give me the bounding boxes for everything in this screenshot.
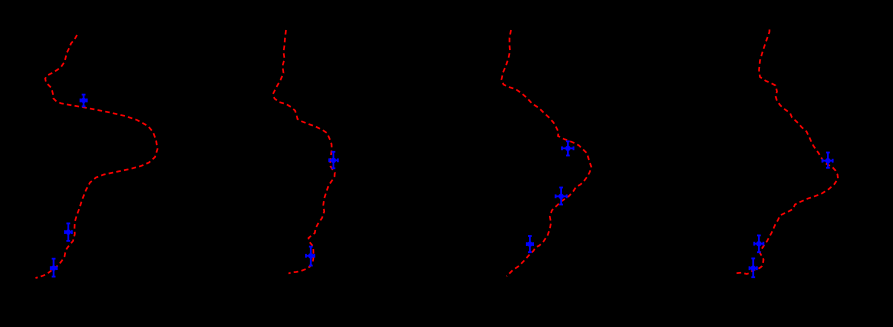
panel 4 data point 2 errorbars [754,235,763,252]
panel 4 data point 1 errorbars [822,153,832,168]
panel 4 data point 3 errorbars [750,258,757,277]
panel 3 data point 1 errorbars [562,141,574,155]
panel 1 data point 2 errorbars [65,223,72,241]
panel 2 model curve (red dashed) [273,30,335,274]
panel 3 data point 3 errorbars [527,236,533,252]
panel 4 model curve (red dashed) [736,30,839,275]
panel 1 data point 1 errorbars [81,95,87,107]
panel 1 data point 3 errorbars [51,259,57,277]
panel 2 data point 1 errorbars [329,152,338,169]
panel 3 model curve (red dashed) [502,30,592,276]
panel 3 data point 2 errorbars [556,188,567,205]
panel 1 model curve (red dashed) [36,35,158,278]
panel 2 data point 2 errorbars [306,247,314,266]
